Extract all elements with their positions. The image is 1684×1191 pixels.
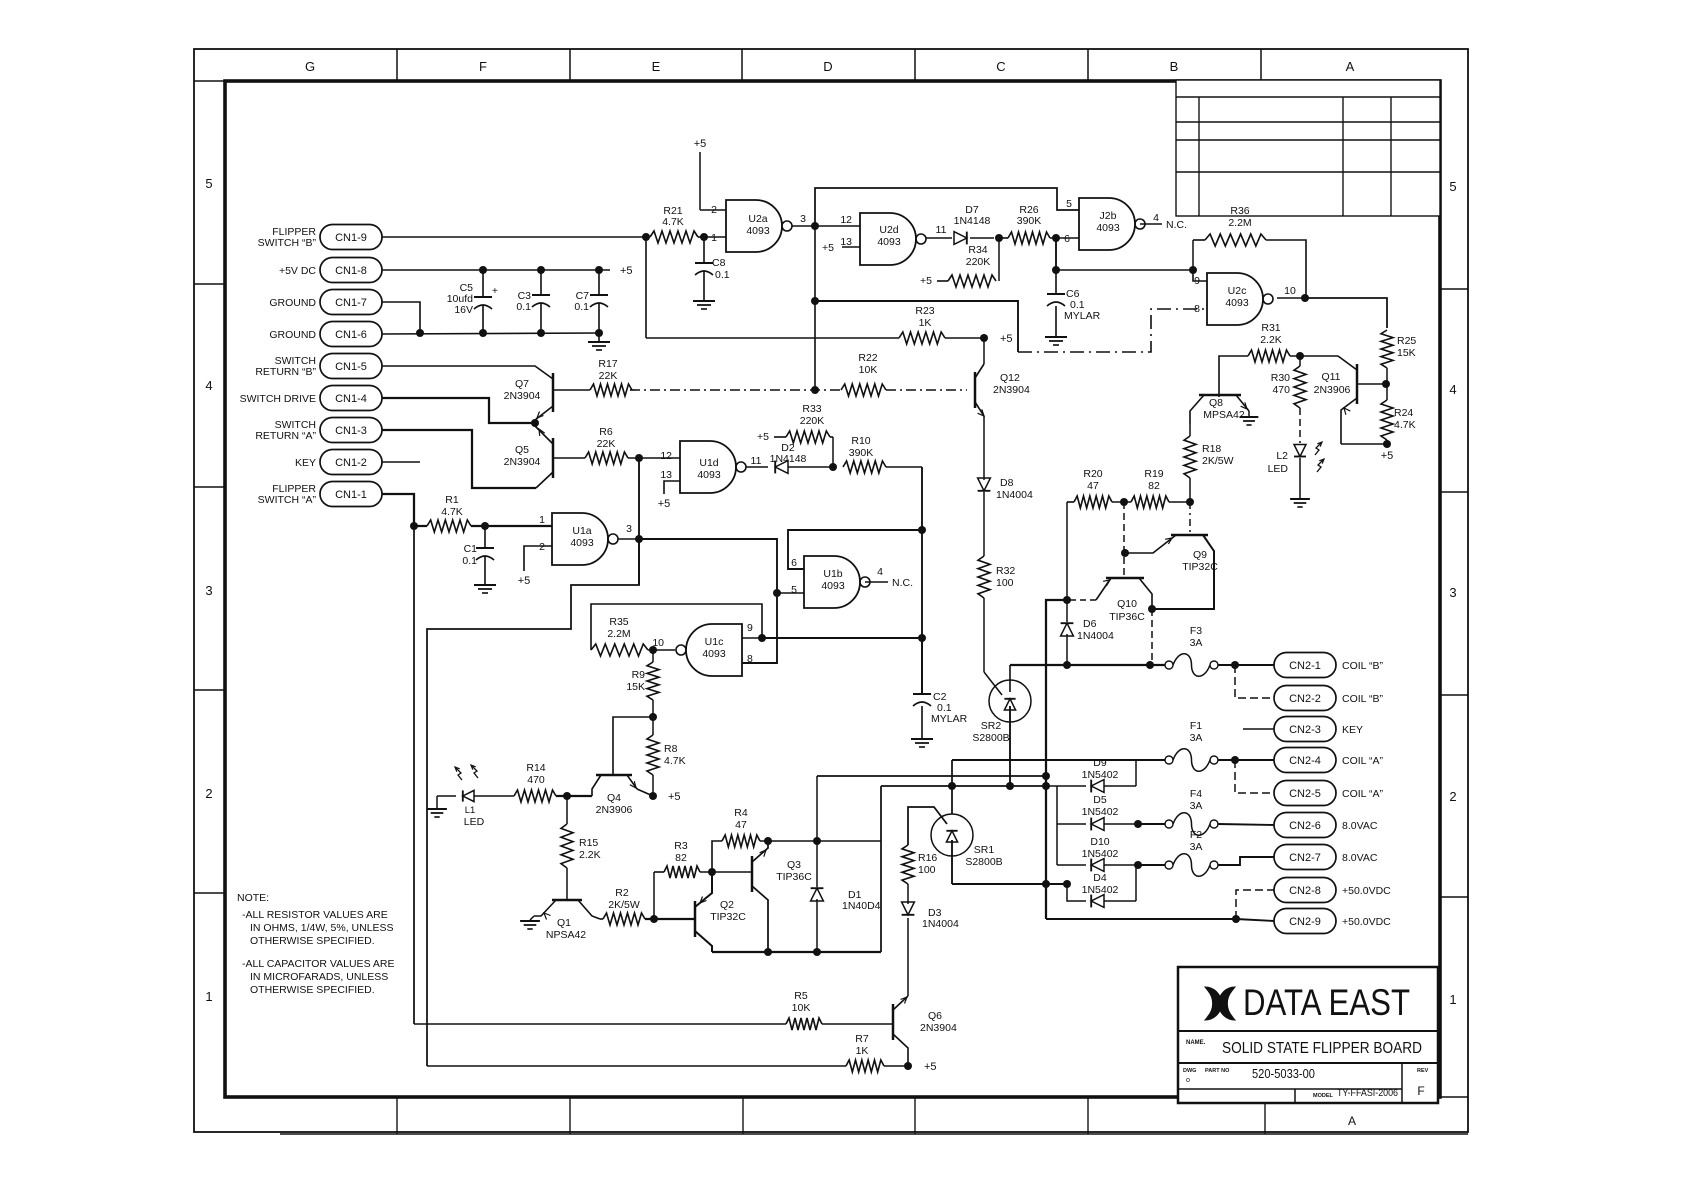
wire R9 junction to Q4 base bbox=[613, 717, 653, 775]
svg-text:SOLID STATE FLIPPER BOARD: SOLID STATE FLIPPER BOARD bbox=[1222, 1040, 1422, 1057]
svg-text:J2b: J2b bbox=[1100, 210, 1117, 222]
svg-text:NPSA42: NPSA42 bbox=[546, 929, 586, 941]
svg-text:R7: R7 bbox=[855, 1033, 869, 1045]
svg-text:R10: R10 bbox=[851, 435, 870, 447]
wire Q6 collector chain up to D3 bbox=[907, 918, 909, 996]
wire SR1 cathode bus bbox=[952, 883, 1067, 885]
svg-text:R3: R3 bbox=[674, 840, 688, 852]
svg-text:4: 4 bbox=[877, 566, 883, 578]
svg-text:U1b: U1b bbox=[823, 568, 842, 580]
svg-text:2N3906: 2N3906 bbox=[596, 804, 633, 816]
wire J2b feedback top bbox=[815, 188, 1079, 226]
connector CN2-3 bbox=[1274, 717, 1336, 742]
resistor R6 22K bbox=[553, 457, 585, 459]
svg-text:CN2-2: CN2-2 bbox=[1289, 693, 1321, 705]
resistor R16 100 bbox=[902, 845, 914, 884]
svg-text:47: 47 bbox=[735, 819, 747, 831]
svg-text:CN1-4: CN1-4 bbox=[335, 393, 367, 405]
op-amp gate U2a 4093 bbox=[726, 200, 782, 252]
svg-text:RETURN “B”: RETURN “B” bbox=[255, 366, 316, 378]
svg-text:Q11: Q11 bbox=[1321, 371, 1340, 383]
svg-text:4093: 4093 bbox=[570, 537, 594, 549]
svg-text:L2: L2 bbox=[1276, 450, 1288, 462]
capacitor C1 0.1 bbox=[484, 526, 486, 548]
transistor Q11 2N3906 bbox=[1356, 364, 1359, 404]
svg-text:2N3904: 2N3904 bbox=[920, 1022, 957, 1034]
wire U1b pin6 from C2 bus bbox=[788, 530, 922, 569]
wire D1 top to SR2 line bbox=[817, 775, 1046, 777]
svg-text:R15: R15 bbox=[579, 837, 598, 849]
svg-text:D10: D10 bbox=[1090, 836, 1109, 848]
gate U1c 4093 mirrored bbox=[686, 624, 742, 676]
wire U2c pin8 long path bbox=[815, 301, 1018, 352]
LED L1 bbox=[437, 795, 456, 797]
svg-text:R36: R36 bbox=[1230, 205, 1249, 217]
svg-text:0.1: 0.1 bbox=[574, 301, 589, 313]
svg-text:LED: LED bbox=[1268, 463, 1289, 475]
wire CN2-3 KEY stub bbox=[1243, 728, 1274, 730]
svg-text:+5: +5 bbox=[924, 1061, 937, 1073]
svg-text:R4: R4 bbox=[734, 807, 748, 819]
wire Q9 emitter loop to Q10 collector bbox=[1152, 608, 1214, 610]
resistor R30 470 bbox=[1294, 366, 1306, 408]
svg-text:MYLAR: MYLAR bbox=[931, 713, 968, 725]
resistor R23 1K bbox=[646, 337, 899, 339]
SCR SR1 S2800B bbox=[931, 814, 973, 856]
svg-text:12: 12 bbox=[840, 214, 852, 226]
svg-text:+5: +5 bbox=[1000, 333, 1013, 345]
svg-text:+: + bbox=[492, 286, 498, 297]
svg-text:1N40D4: 1N40D4 bbox=[842, 900, 881, 912]
wire Q2/Q3 collector bottom bus bbox=[712, 951, 881, 953]
transistor Q6 2N3904 bbox=[892, 1004, 895, 1040]
svg-text:0.1: 0.1 bbox=[715, 269, 730, 281]
SCR SR2 S2800B bbox=[989, 680, 1031, 722]
svg-text:F: F bbox=[479, 59, 487, 74]
svg-text:U1d: U1d bbox=[699, 457, 718, 469]
svg-text:CN2-3: CN2-3 bbox=[1289, 724, 1321, 736]
svg-text:G: G bbox=[305, 59, 315, 74]
wire CN1-4 switch drive to emitter junction bbox=[382, 398, 535, 423]
connector CN1-5 bbox=[320, 354, 382, 379]
svg-text:TIP36C: TIP36C bbox=[776, 871, 812, 883]
svg-text:2N3906: 2N3906 bbox=[1314, 384, 1351, 396]
svg-text:KEY: KEY bbox=[295, 457, 316, 469]
svg-text:4: 4 bbox=[205, 378, 212, 393]
svg-text:22K: 22K bbox=[597, 438, 616, 450]
svg-text:Q2: Q2 bbox=[720, 899, 734, 911]
wire CN1-3 to Q5 collector bbox=[382, 430, 536, 488]
svg-text:Q7: Q7 bbox=[515, 378, 529, 390]
svg-text:+5: +5 bbox=[694, 138, 707, 150]
svg-text:2N3904: 2N3904 bbox=[504, 456, 541, 468]
wire SR2 cathode bus bbox=[881, 785, 1046, 787]
svg-text:1: 1 bbox=[1449, 992, 1456, 1007]
diode D2 1N4148 bbox=[775, 461, 788, 474]
fuse F2 3A bbox=[1138, 864, 1165, 866]
svg-text:NAME.: NAME. bbox=[1186, 1040, 1206, 1046]
wire U1a output node bbox=[618, 538, 639, 540]
wire bottom bus up right side bbox=[880, 786, 882, 952]
connector CN2-6 bbox=[1274, 813, 1336, 838]
ground at LED L1 bbox=[436, 796, 438, 808]
svg-text:R17: R17 bbox=[598, 358, 617, 370]
resistor R14 470 bbox=[474, 795, 514, 797]
resistor R18 2K/5W bbox=[1184, 436, 1196, 478]
wire node bus x639 bbox=[638, 458, 640, 585]
svg-text:OTHERWISE SPECIFIED.: OTHERWISE SPECIFIED. bbox=[250, 984, 375, 996]
svg-text:4.7K: 4.7K bbox=[664, 755, 686, 767]
wire U1a out down to R7 line bbox=[427, 539, 639, 1066]
svg-text:10K: 10K bbox=[859, 364, 878, 376]
svg-text:+5: +5 bbox=[920, 275, 932, 287]
svg-text:1: 1 bbox=[539, 514, 545, 526]
connector CN2-8 bbox=[1274, 878, 1336, 903]
connector CN1-2 bbox=[320, 450, 382, 475]
svg-text:1N5402: 1N5402 bbox=[1082, 806, 1119, 818]
svg-text:+5: +5 bbox=[822, 242, 834, 254]
wire D9 to D5 vertical bbox=[1056, 786, 1058, 824]
wire J2b output N.C. bbox=[1140, 223, 1162, 225]
svg-text:R24: R24 bbox=[1394, 407, 1413, 419]
resistor R3 82 bbox=[653, 872, 655, 919]
capacitor C2 0.1 MYLAR bbox=[921, 638, 923, 694]
connector CN1-4 bbox=[320, 386, 382, 411]
gate U1a 4093 bbox=[552, 513, 608, 565]
svg-text:5: 5 bbox=[791, 584, 797, 596]
transistor Q1 MPSA42 bbox=[552, 899, 582, 902]
svg-text:TIP36C: TIP36C bbox=[1109, 611, 1145, 623]
svg-text:Q9: Q9 bbox=[1193, 549, 1207, 561]
svg-text:CN2-4: CN2-4 bbox=[1289, 755, 1321, 767]
svg-text:4.7K: 4.7K bbox=[1394, 419, 1416, 431]
svg-text:R20: R20 bbox=[1083, 468, 1102, 480]
svg-text:2.2K: 2.2K bbox=[1260, 334, 1282, 346]
svg-text:GROUND: GROUND bbox=[269, 329, 316, 341]
svg-text:+5: +5 bbox=[658, 498, 671, 510]
svg-text:R18: R18 bbox=[1202, 443, 1221, 455]
svg-text:R14: R14 bbox=[526, 762, 545, 774]
wire CN1-1 to R1 bbox=[382, 494, 427, 526]
transistor Q3 TIP36C bbox=[751, 856, 754, 892]
svg-text:+50.0VDC: +50.0VDC bbox=[1342, 885, 1391, 897]
wire R21 junction down to R23 line bbox=[645, 237, 647, 338]
diode D10 1N5402 bbox=[1057, 864, 1086, 866]
svg-text:SR1: SR1 bbox=[974, 844, 995, 856]
wire pin9 node to C2 bus bbox=[762, 637, 922, 639]
svg-text:PART NO: PART NO bbox=[1205, 1068, 1230, 1074]
resistor R19 82 bbox=[1131, 496, 1169, 508]
wire U2c output bbox=[1277, 297, 1305, 299]
svg-text:CN1-5: CN1-5 bbox=[335, 361, 367, 373]
svg-text:CN1-2: CN1-2 bbox=[335, 457, 367, 469]
svg-text:2N3904: 2N3904 bbox=[504, 390, 541, 402]
connector CN1-8 bbox=[320, 258, 382, 283]
svg-text:F3: F3 bbox=[1190, 625, 1202, 637]
diode D8 1N4004 bbox=[978, 478, 991, 491]
svg-text:22K: 22K bbox=[599, 370, 618, 382]
wire CN1-7 to ground bus bbox=[382, 302, 420, 333]
wire R19 node to Q9 base bbox=[1189, 502, 1191, 535]
svg-text:o: o bbox=[1186, 1077, 1190, 1084]
svg-text:47: 47 bbox=[1087, 480, 1099, 492]
resistor R21 4.7K bbox=[642, 233, 650, 241]
svg-text:IN OHMS, 1/4W, 5%, UNLESS: IN OHMS, 1/4W, 5%, UNLESS bbox=[250, 922, 394, 934]
connector CN2-2 bbox=[1274, 686, 1336, 711]
svg-text:470: 470 bbox=[527, 774, 545, 786]
svg-text:U1a: U1a bbox=[572, 525, 591, 537]
resistor R31 2.2K bbox=[1219, 356, 1248, 397]
svg-text:+5: +5 bbox=[668, 791, 681, 803]
resistor R8 4.7K bbox=[647, 735, 659, 775]
svg-text:F2: F2 bbox=[1190, 829, 1202, 841]
wire Q4 emitter to +5 bbox=[649, 792, 657, 800]
ground bus ground symbol bbox=[598, 333, 600, 341]
wire U2a output to U2d pin 12 bbox=[792, 225, 860, 227]
svg-text:4.7K: 4.7K bbox=[662, 216, 684, 228]
svg-text:12: 12 bbox=[660, 450, 672, 462]
connector CN1-3 bbox=[320, 418, 382, 443]
svg-text:F: F bbox=[1417, 1084, 1424, 1098]
svg-text:S2800B: S2800B bbox=[972, 732, 1009, 744]
wire coil A bus to F1 bbox=[952, 759, 1165, 761]
svg-text:CN2-8: CN2-8 bbox=[1289, 885, 1321, 897]
svg-text:2: 2 bbox=[205, 786, 212, 801]
svg-text:N.C.: N.C. bbox=[1166, 219, 1187, 231]
svg-text:A: A bbox=[1346, 59, 1355, 74]
wire Q10 base dash bbox=[1123, 502, 1125, 578]
svg-text:CN1-1: CN1-1 bbox=[335, 489, 367, 501]
wire U1d output to D2 bbox=[746, 466, 768, 468]
svg-text:R31: R31 bbox=[1261, 322, 1280, 334]
wire D5 to D10 vertical bbox=[1056, 824, 1058, 865]
resistor R1 4.7K bbox=[427, 520, 471, 532]
wire to CN2-2 bbox=[1235, 665, 1274, 698]
svg-text:1K: 1K bbox=[856, 1045, 869, 1057]
wire U1b output N.C. bbox=[865, 581, 888, 583]
svg-text:Q12: Q12 bbox=[1000, 372, 1020, 384]
diode D7 1N4148 bbox=[954, 232, 967, 245]
svg-text:1N5402: 1N5402 bbox=[1082, 884, 1119, 896]
resistor R10 390K bbox=[843, 461, 886, 473]
svg-text:82: 82 bbox=[1148, 480, 1160, 492]
svg-text:3: 3 bbox=[1449, 585, 1456, 600]
svg-text:11: 11 bbox=[936, 224, 947, 236]
svg-text:3A: 3A bbox=[1190, 800, 1203, 812]
revision table bbox=[1176, 80, 1440, 216]
svg-text:+5: +5 bbox=[757, 431, 769, 443]
wire CN1-9 to R21 bbox=[382, 236, 646, 238]
resistor R4 47 bbox=[712, 841, 722, 872]
top header band column letters bbox=[194, 80, 1440, 82]
resistor R26 390K bbox=[999, 237, 1008, 239]
LED L2 bbox=[1299, 408, 1301, 443]
svg-text:D5: D5 bbox=[1093, 794, 1107, 806]
svg-text:COIL “A”: COIL “A” bbox=[1342, 788, 1384, 800]
svg-text:470: 470 bbox=[1272, 384, 1290, 396]
capacitor C8 0.1 bbox=[703, 237, 705, 263]
resistor R2 2K/5W bbox=[600, 918, 603, 920]
svg-text:R34: R34 bbox=[968, 244, 987, 256]
svg-text:220K: 220K bbox=[966, 256, 991, 268]
wire ground bus CN1-6 bbox=[382, 333, 599, 334]
svg-text:100: 100 bbox=[996, 577, 1014, 589]
svg-text:4093: 4093 bbox=[821, 580, 845, 592]
svg-text:3: 3 bbox=[800, 213, 806, 225]
wire CN1-1 vertical to R5 line bbox=[413, 526, 415, 1024]
svg-text:F1: F1 bbox=[1190, 720, 1202, 732]
svg-text:9: 9 bbox=[1194, 275, 1200, 287]
diode D3 1N4004 bbox=[902, 902, 915, 915]
svg-text:REV: REV bbox=[1417, 1068, 1429, 1074]
svg-text:15K: 15K bbox=[1397, 347, 1416, 359]
svg-text:R16: R16 bbox=[918, 852, 937, 864]
wire U2d output to D7 bbox=[926, 237, 952, 239]
svg-text:TIP32C: TIP32C bbox=[710, 911, 746, 923]
wire D9 line bbox=[1046, 785, 1086, 787]
svg-text:R5: R5 bbox=[794, 990, 808, 1002]
svg-text:CN1-7: CN1-7 bbox=[335, 297, 367, 309]
svg-text:TIP32C: TIP32C bbox=[1182, 561, 1218, 573]
svg-text:6: 6 bbox=[791, 557, 797, 569]
svg-text:CN1-3: CN1-3 bbox=[335, 425, 367, 437]
svg-text:DATA EAST: DATA EAST bbox=[1243, 982, 1410, 1023]
connector CN1-1 bbox=[320, 482, 382, 507]
connector CN2-9 bbox=[1274, 909, 1336, 934]
gate U2c 4093 bbox=[1207, 273, 1263, 325]
svg-text:C: C bbox=[996, 59, 1005, 74]
svg-text:+5: +5 bbox=[620, 265, 633, 277]
transistor Q2 TIP32C bbox=[694, 901, 697, 937]
svg-text:R9: R9 bbox=[632, 669, 646, 681]
svg-text:SR2: SR2 bbox=[981, 720, 1002, 732]
+5 stub U1d pin 13 bbox=[664, 481, 680, 494]
wire F3 bus coil B bbox=[1010, 664, 1165, 666]
svg-text:2N3904: 2N3904 bbox=[993, 384, 1030, 396]
svg-text:+5V DC: +5V DC bbox=[279, 265, 316, 277]
svg-text:MODEL: MODEL bbox=[1313, 1093, 1334, 1099]
wire Q12 emitter down to D8 bbox=[983, 416, 985, 478]
svg-text:KEY: KEY bbox=[1342, 724, 1363, 736]
svg-text:R33: R33 bbox=[802, 403, 821, 415]
svg-text:+5: +5 bbox=[1381, 450, 1394, 462]
svg-text:-ALL RESISTOR VALUES ARE: -ALL RESISTOR VALUES ARE bbox=[242, 909, 388, 921]
svg-text:16V: 16V bbox=[454, 304, 473, 316]
svg-text:R1: R1 bbox=[445, 494, 459, 506]
transistor Q4 2N3906 bbox=[596, 774, 632, 777]
wire F3 to CN2-1 bbox=[1218, 664, 1274, 666]
svg-text:R35: R35 bbox=[609, 616, 628, 628]
svg-text:1N5402: 1N5402 bbox=[1082, 769, 1119, 781]
svg-text:3A: 3A bbox=[1190, 841, 1203, 853]
svg-text:U2a: U2a bbox=[748, 213, 767, 225]
svg-text:1N4148: 1N4148 bbox=[954, 215, 991, 227]
svg-text:COIL “A”: COIL “A” bbox=[1342, 755, 1384, 767]
diode D4 1N5402 bbox=[1067, 884, 1086, 901]
wire CN2-8 bbox=[1236, 890, 1274, 919]
svg-text:Q5: Q5 bbox=[515, 444, 529, 456]
svg-text:1N4004: 1N4004 bbox=[1077, 630, 1114, 642]
svg-text:Q6: Q6 bbox=[928, 1010, 942, 1022]
svg-text:R23: R23 bbox=[915, 305, 934, 317]
svg-text:Q1: Q1 bbox=[557, 917, 571, 929]
resistor R20 47 bbox=[1067, 501, 1074, 503]
svg-text:RETURN “A”: RETURN “A” bbox=[255, 430, 316, 442]
fuse F4 3A bbox=[1138, 823, 1165, 825]
svg-text:CN2-9: CN2-9 bbox=[1289, 916, 1321, 928]
transistor Q5 2N3904 bbox=[552, 438, 555, 478]
transistor Q9 TIP32C bbox=[1171, 534, 1208, 537]
wire Q10 collector dash down bbox=[1151, 609, 1153, 663]
svg-text:LED: LED bbox=[464, 816, 485, 828]
svg-text:D4: D4 bbox=[1093, 872, 1107, 884]
wire F4 to CN2-6 bbox=[1218, 824, 1274, 825]
wire U1c pin9 to node bbox=[742, 637, 762, 639]
svg-text:2: 2 bbox=[711, 204, 717, 216]
svg-text:COIL “B”: COIL “B” bbox=[1342, 693, 1384, 705]
transistor Q8 MPSA42 bbox=[1199, 394, 1241, 397]
svg-text:2: 2 bbox=[539, 541, 545, 553]
svg-text:11: 11 bbox=[751, 455, 762, 467]
wire U2a output vertical bus bbox=[814, 226, 816, 390]
svg-text:1: 1 bbox=[205, 989, 212, 1004]
svg-text:COIL “B”: COIL “B” bbox=[1342, 660, 1384, 672]
svg-text:2K/5W: 2K/5W bbox=[608, 899, 640, 911]
+5 stub U1a pin 2 bbox=[524, 546, 552, 571]
svg-text:4: 4 bbox=[1449, 382, 1456, 397]
svg-text:3: 3 bbox=[626, 523, 632, 535]
svg-text:R6: R6 bbox=[599, 426, 613, 438]
svg-text:Q10: Q10 bbox=[1117, 598, 1137, 610]
svg-text:GROUND: GROUND bbox=[269, 297, 316, 309]
svg-text:SWITCH DRIVE: SWITCH DRIVE bbox=[240, 393, 316, 405]
connector CN1-7 bbox=[320, 290, 382, 315]
transistor Q7 2N3904 bbox=[552, 373, 555, 412]
svg-text:IN MICROFARADS, UNLESS: IN MICROFARADS, UNLESS bbox=[250, 971, 388, 983]
diode D5 1N5402 bbox=[1057, 823, 1086, 825]
svg-text:F4: F4 bbox=[1190, 788, 1202, 800]
svg-text:E: E bbox=[652, 59, 661, 74]
ground at Q8 bbox=[1248, 411, 1250, 416]
resistor R35 2.2M feedback loop bbox=[591, 604, 762, 650]
footer band bbox=[225, 1096, 1468, 1098]
svg-text:U2d: U2d bbox=[879, 224, 898, 236]
transistor Q12 2N3904 bbox=[974, 372, 977, 408]
svg-text:5: 5 bbox=[1066, 198, 1072, 210]
svg-text:-ALL CAPACITOR VALUES ARE: -ALL CAPACITOR VALUES ARE bbox=[242, 958, 395, 970]
svg-text:CN1-6: CN1-6 bbox=[335, 329, 367, 341]
svg-text:CN1-8: CN1-8 bbox=[335, 265, 367, 277]
svg-text:A: A bbox=[1348, 1114, 1356, 1128]
ground at Q1 bbox=[530, 916, 534, 920]
wire +50V bus vertical bbox=[1046, 600, 1067, 919]
wire CN1-2 stub bbox=[382, 461, 420, 463]
svg-text:OTHERWISE SPECIFIED.: OTHERWISE SPECIFIED. bbox=[250, 935, 375, 947]
svg-text:SWITCH “B”: SWITCH “B” bbox=[258, 237, 317, 249]
wire SR1 anode from F1 line bbox=[951, 760, 953, 814]
svg-text:DWG: DWG bbox=[1183, 1068, 1196, 1074]
wire U1b pin5 bbox=[777, 592, 804, 594]
resistor R32 100 bbox=[978, 556, 990, 598]
gate U1b 4093 bbox=[804, 556, 860, 608]
resistor R36 2.2M feedback bbox=[1192, 240, 1194, 270]
svg-text:2K/5W: 2K/5W bbox=[1202, 455, 1234, 467]
svg-text:8.0VAC: 8.0VAC bbox=[1342, 820, 1378, 832]
svg-text:1N5402: 1N5402 bbox=[1082, 848, 1119, 860]
svg-text:2.2M: 2.2M bbox=[1228, 217, 1251, 229]
svg-text:CN1-9: CN1-9 bbox=[335, 232, 367, 244]
svg-text:4093: 4093 bbox=[697, 469, 721, 481]
